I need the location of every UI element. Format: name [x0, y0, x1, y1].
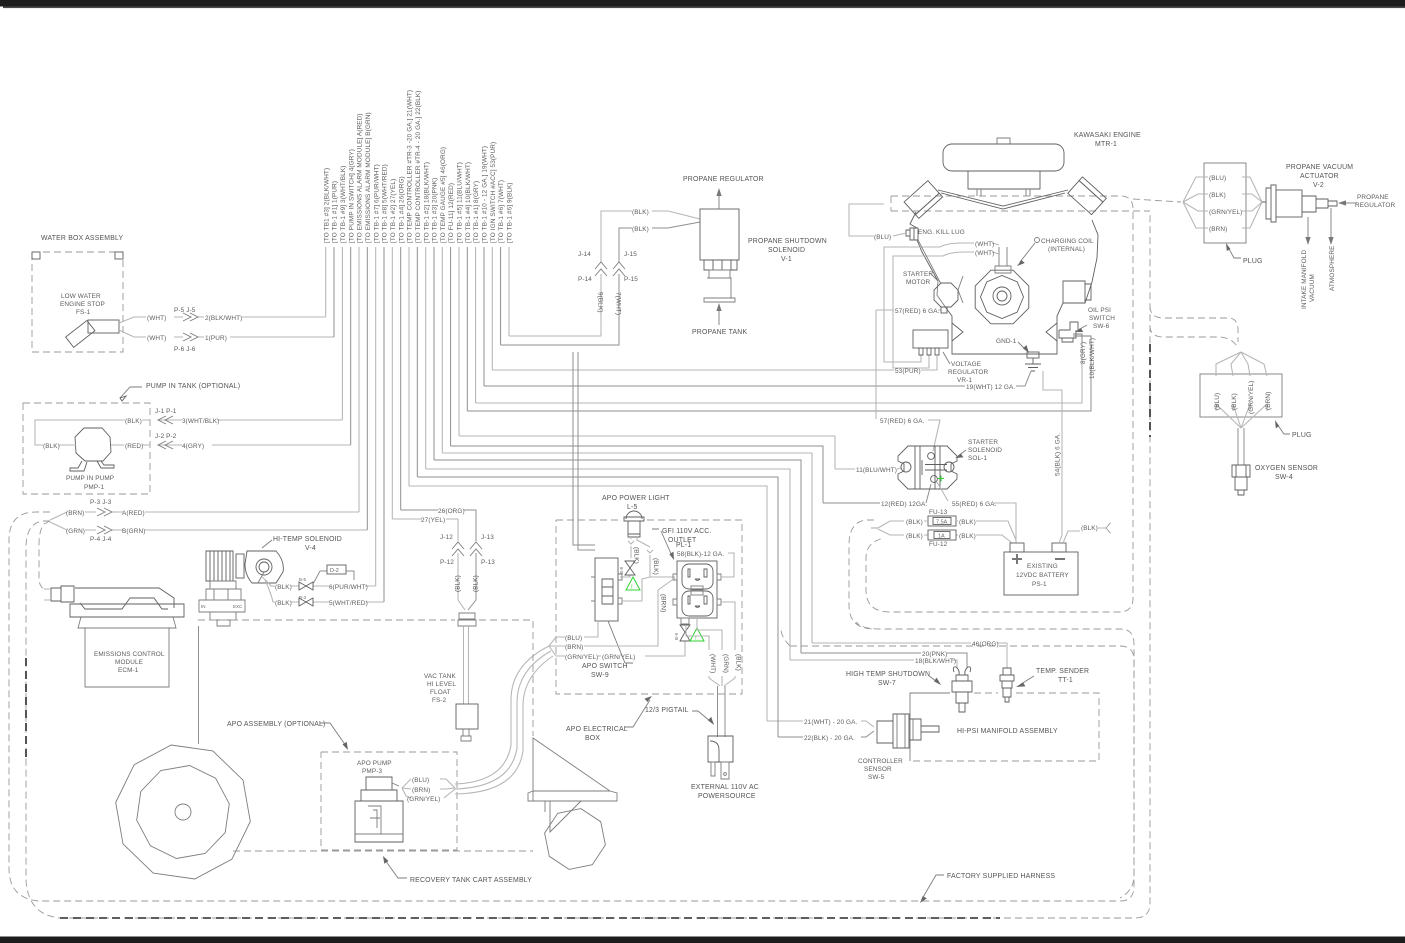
svg-text:(BLK): (BLK) [906, 519, 923, 526]
svg-text:(BLK): (BLK) [735, 654, 742, 671]
svg-text:[TO EMISSIONS ALARM MODULE] B(: [TO EMISSIONS ALARM MODULE] B(GRN) [365, 112, 372, 243]
svg-text:PMP-3: PMP-3 [362, 768, 382, 775]
svg-text:APO SWITCH: APO SWITCH [582, 663, 628, 670]
svg-text:EXTERNAL 110V AC: EXTERNAL 110V AC [691, 784, 759, 791]
factory harness dashed border left outer [9, 512, 1134, 901]
svg-text:LOW WATER: LOW WATER [61, 293, 101, 300]
wire 21(WHT) 20 GA to controller sensor [409, 486, 874, 727]
factory harness black dashed segment right [1149, 344, 1151, 437]
svg-text:P-5 J-5: P-5 J-5 [174, 307, 196, 314]
svg-text:SOLENOID: SOLENOID [768, 247, 805, 254]
svg-text:(WHT): (WHT) [147, 335, 166, 342]
svg-text:[TO FU-11] 12(RED): [TO FU-11] 12(RED) [448, 183, 455, 243]
wire 19(WHT) 12 GA to GND-1 [484, 371, 1031, 386]
wire 7(WHT) vertical drop [500, 247, 502, 345]
svg-text:GFI 110V ACC.: GFI 110V ACC. [662, 528, 712, 535]
wire 19(WHT) vertical drop [483, 247, 485, 386]
svg-text:(WHT): (WHT) [975, 250, 994, 257]
svg-text:(GRN/YEL): (GRN/YEL) [1209, 209, 1242, 216]
svg-text:12VDC BATTERY: 12VDC BATTERY [1016, 572, 1069, 579]
svg-text:(BLK): (BLK) [43, 443, 60, 450]
external 110V AC plug [708, 736, 733, 762]
svg-text:7(WHT): 7(WHT) [615, 292, 622, 315]
svg-text:(BRN): (BRN) [1265, 392, 1272, 410]
svg-text:[TO TB1 #3] 2(BLK/WHT): [TO TB1 #3] 2(BLK/WHT) [323, 168, 330, 243]
svg-text:V-2: V-2 [1313, 182, 1324, 189]
svg-text:B-9: B-9 [674, 633, 679, 641]
svg-text:27(YEL): 27(YEL) [421, 517, 445, 524]
wire 12(RED) vertical drop [450, 247, 452, 446]
emissions control module ECM-1 [51, 586, 74, 602]
starter solenoid SOL-1 [898, 446, 957, 489]
svg-text:STARTER: STARTER [903, 271, 933, 278]
svg-text:(BLK): (BLK) [275, 600, 292, 607]
wire ECM to harness [44, 589, 51, 600]
svg-text:53(PUR): 53(PUR) [895, 368, 921, 375]
pigtail wires (WHT)(GRN)(BLK) [686, 602, 735, 686]
wire (WHT) to P-6 J-6 [119, 330, 334, 337]
svg-text:6(PUR/WHT): 6(PUR/WHT) [329, 584, 368, 591]
wire 10(BLK/WHT) to oil psi switch [467, 342, 1091, 411]
dashed link to oxygen sensor plug lower [1150, 326, 1238, 348]
wire switch to outlet hot [622, 577, 650, 601]
wire 53(PUR) vertical drop [491, 247, 493, 370]
svg-text:(INTERNAL): (INTERNAL) [1048, 246, 1085, 253]
svg-text:VOLTAGE: VOLTAGE [951, 361, 981, 368]
svg-text:57(RED) 6 GA.: 57(RED) 6 GA. [895, 308, 940, 315]
svg-text:[TO TB-1 #3] 20(PNK): [TO TB-1 #3] 20(PNK) [432, 178, 439, 243]
svg-text:SENSOR: SENSOR [864, 766, 892, 773]
svg-text:FLOAT: FLOAT [430, 689, 451, 696]
svg-text:[TO TB-1 #10 - 12 GA.] 19(WHT): [TO TB-1 #10 - 12 GA.] 19(WHT) [482, 146, 489, 243]
svg-text:(BLK): (BLK) [1231, 393, 1238, 410]
wire 18(BLK/WHT) vertical drop [425, 247, 427, 469]
svg-text:P-12: P-12 [440, 559, 454, 566]
svg-text:[TO TB-1 #4] 10(BLK/WHT): [TO TB-1 #4] 10(BLK/WHT) [465, 162, 472, 243]
svg-text:IN: IN [201, 604, 206, 609]
svg-text:CHARGING COIL: CHARGING COIL [1041, 238, 1094, 245]
engine block outline [938, 190, 1068, 209]
svg-text:SW-7: SW-7 [878, 680, 896, 687]
wire (BLU) to switch [584, 621, 598, 637]
svg-text:ATMOSPHERE: ATMOSPHERE [1329, 246, 1336, 291]
svg-text:HI-TEMP SOLENOID: HI-TEMP SOLENOID [273, 536, 342, 543]
wire 27(YEL) vertical drop [391, 247, 393, 519]
voltage regulator VR-1 [913, 330, 948, 348]
warning triangle (green) near switch [626, 577, 640, 590]
svg-text:55(RED) 6 GA.: 55(RED) 6 GA. [952, 501, 997, 508]
wire 53(PUR) to voltage regulator [492, 356, 937, 370]
12/3 pigtail cable [718, 686, 726, 737]
dashed link to oxygen sensor plug upper [1150, 306, 1238, 342]
svg-text:(GRN/YEL): (GRN/YEL) [1248, 381, 1255, 414]
wire 26(ORG) vertical drop [400, 247, 402, 510]
svg-text:P-4 J-4: P-4 J-4 [90, 536, 112, 543]
wire 46(ORG) vertical drop [441, 247, 443, 453]
svg-text:RECOVERY TANK CART ASSEMBLY: RECOVERY TANK CART ASSEMBLY [410, 877, 532, 884]
svg-text:12(RED) 12GA.: 12(RED) 12GA. [881, 501, 927, 508]
svg-text:20(PNK): 20(PNK) [922, 651, 947, 658]
svg-text:(BRN): (BRN) [1209, 226, 1227, 233]
svg-text:EXC: EXC [233, 604, 243, 609]
engine PTO shaft [1063, 281, 1091, 303]
svg-text:APO POWER LIGHT: APO POWER LIGHT [602, 495, 670, 502]
hi-psi manifold assembly enclosure [910, 693, 950, 761]
svg-text:(BLK): (BLK) [959, 519, 976, 526]
wire 27(YEL) to J-12 [392, 519, 465, 610]
wire 20(PNK) vertical drop [433, 247, 435, 460]
wire 8(GRY) to oil psi switch [476, 342, 1082, 403]
wire (BLK) diode B-5 to 6(PUR/WHT) [262, 577, 376, 586]
svg-text:(GRN/YEL): (GRN/YEL) [407, 796, 440, 803]
svg-text:SW-5: SW-5 [868, 774, 885, 781]
propane regulator arrow (top) [718, 196, 720, 209]
svg-text:(GRN/YEL): (GRN/YEL) [602, 654, 635, 661]
svg-text:FS-2: FS-2 [432, 697, 447, 704]
svg-text:5(WHT/RED): 5(WHT/RED) [329, 600, 368, 607]
plug for oxygen sensor [1200, 374, 1282, 417]
svg-text:PROPANE SHUTDOWN: PROPANE SHUTDOWN [748, 238, 827, 245]
wire (RED) to 4(GRY) [111, 444, 351, 446]
feeder wires into APO box top [573, 352, 595, 550]
recovery tank wheel (decagon) [116, 745, 251, 879]
svg-text:P-3 J-3: P-3 J-3 [90, 499, 112, 506]
wire 12(RED) 12GA to starter solenoid [451, 446, 931, 503]
propane tank arrow (bottom) [718, 309, 720, 325]
svg-text:D-2: D-2 [330, 568, 339, 574]
svg-text:12/3 PIGTAIL: 12/3 PIGTAIL [645, 707, 689, 714]
svg-text:(BLK): (BLK) [1209, 192, 1226, 199]
svg-text:3(WHT/BLK): 3(WHT/BLK) [182, 418, 219, 425]
fuse FU-12 1A [878, 529, 1012, 543]
svg-text:8(GRY): 8(GRY) [1080, 342, 1087, 364]
svg-text:1(PUR): 1(PUR) [205, 335, 227, 342]
svg-text:BOX: BOX [585, 735, 600, 742]
svg-text:(BLK): (BLK) [275, 584, 292, 591]
svg-text:APO ASSEMBLY (OPTIONAL): APO ASSEMBLY (OPTIONAL) [227, 721, 326, 728]
wire A(RED) vertical drop [358, 247, 360, 512]
svg-text:(BLK): (BLK) [455, 575, 462, 592]
wire 2(BLK/WHT) vertical drop [325, 247, 327, 317]
svg-text:PL-1: PL-1 [676, 542, 691, 549]
svg-text:(GRN): (GRN) [66, 528, 85, 535]
svg-text:V-1: V-1 [781, 256, 792, 263]
svg-text:KAWASAKI ENGINE: KAWASAKI ENGINE [1074, 132, 1141, 139]
svg-text:J-15: J-15 [624, 251, 637, 258]
svg-text:21(WHT) - 20 GA.: 21(WHT) - 20 GA. [804, 719, 858, 726]
svg-text:[TO TEMP CONTROLLER #TR-3 -20: [TO TEMP CONTROLLER #TR-3 -20 GA.] 21(WH… [407, 90, 414, 243]
svg-text:VR-1: VR-1 [957, 377, 972, 384]
svg-text:EMISSIONS CONTROL: EMISSIONS CONTROL [94, 651, 165, 658]
svg-text:HI-PSI MANIFOLD ASSEMBLY: HI-PSI MANIFOLD ASSEMBLY [957, 728, 1058, 735]
wire 46(ORG) to temp sender [442, 453, 1007, 668]
svg-text:MTR-1: MTR-1 [1095, 141, 1117, 148]
svg-text:P-15: P-15 [624, 276, 638, 283]
svg-text:VAC TANK: VAC TANK [424, 673, 456, 680]
bottom border bar [0, 937, 1405, 943]
svg-text:[TO TB-1 #2] 18(BLK/WHT): [TO TB-1 #2] 18(BLK/WHT) [423, 162, 430, 243]
svg-text:OXYGEN SENSOR: OXYGEN SENSOR [1255, 465, 1318, 472]
wire 1(PUR) vertical drop [333, 247, 335, 337]
svg-text:22(BLK) - 20 GA.: 22(BLK) - 20 GA. [804, 735, 855, 742]
wire 20(PNK) to high temp shutdown [434, 460, 967, 668]
svg-text:REGULATOR: REGULATOR [948, 369, 989, 376]
wire 22(BLK) 20 GA to controller sensor [417, 477, 874, 737]
engine left muffler [904, 181, 943, 219]
recovery tank cart assembly label [233, 850, 533, 852]
wire 8(GRY) vertical drop [475, 247, 477, 403]
oxygen sensor SW-4 [1238, 428, 1244, 465]
svg-text:REGULATOR: REGULATOR [1355, 202, 1396, 209]
wire 22(BLK) vertical drop [416, 247, 418, 477]
svg-text:[TO TB-1 #9] 3(WHT/BLK): [TO TB-1 #9] 3(WHT/BLK) [340, 166, 347, 243]
svg-text:PROPANE REGULATOR: PROPANE REGULATOR [683, 176, 764, 183]
svg-text:PLUG: PLUG [1243, 258, 1263, 265]
svg-text:19(WHT) 12 GA.: 19(WHT) 12 GA. [966, 384, 1015, 391]
svg-text:B-5: B-5 [299, 577, 307, 582]
svg-text:[TO TB-1 #8] 5(WHT/RED): [TO TB-1 #8] 5(WHT/RED) [382, 164, 389, 243]
vac tank hi level float FS-2 [458, 613, 476, 626]
svg-text:L-5: L-5 [627, 504, 638, 511]
svg-text:FS-1: FS-1 [76, 309, 91, 316]
svg-text:FU-12: FU-12 [929, 541, 948, 548]
svg-text:7.5A: 7.5A [936, 520, 948, 526]
svg-text:(BLK): (BLK) [632, 209, 649, 216]
svg-text:P-6 J-6: P-6 J-6 [174, 346, 196, 353]
svg-text:PMP-1: PMP-1 [84, 484, 104, 491]
svg-text:ENGINE STOP: ENGINE STOP [60, 301, 105, 308]
plug for propane vacuum actuator [1204, 163, 1246, 243]
engine right muffler [1068, 177, 1107, 215]
dashed boundary through float [198, 620, 533, 736]
wire (BLU)(BRN)(GRN/YEL) pump pigtail [402, 779, 455, 798]
svg-text:(BLK): (BLK) [906, 533, 923, 540]
wire 5(WHT/RED) vertical drop [383, 247, 385, 602]
svg-text:ENG. KILL LUG: ENG. KILL LUG [918, 229, 965, 236]
wire (WHT) charging leads [940, 243, 999, 256]
svg-text:26(ORG): 26(ORG) [438, 508, 465, 515]
svg-text:POWERSOURCE: POWERSOURCE [698, 793, 756, 800]
svg-text:MOTOR: MOTOR [906, 279, 931, 286]
wire 3(WHT/BLK) vertical drop [341, 247, 343, 420]
svg-text:(BLK): (BLK) [473, 575, 480, 592]
outlet body [677, 561, 717, 618]
svg-text:GND-1: GND-1 [996, 338, 1017, 345]
svg-text:(BLK): (BLK) [1081, 525, 1098, 532]
pump in pump PMP-1 [75, 428, 111, 461]
wire (GRN/YEL) ground to diode B-9 [597, 641, 685, 656]
wire (BLU) to kill lug [849, 204, 906, 236]
svg-text:(BRN): (BRN) [412, 787, 430, 794]
svg-text:SW-6: SW-6 [1093, 323, 1110, 330]
APO switch SW-9 [595, 558, 618, 621]
svg-text:(BLK): (BLK) [632, 226, 649, 233]
svg-text:SW-9: SW-9 [591, 672, 609, 679]
svg-text:TT-1: TT-1 [1058, 677, 1073, 684]
svg-text:4(GRY): 4(GRY) [182, 443, 204, 450]
svg-text:B-3: B-3 [299, 595, 307, 600]
svg-text:58(BLK)-12 GA.: 58(BLK)-12 GA. [677, 551, 724, 558]
svg-text:J-14: J-14 [578, 251, 591, 258]
svg-text:(WHT): (WHT) [709, 654, 716, 673]
recovery cart [528, 738, 617, 801]
wire 9(BLK) vertical drop [508, 247, 510, 336]
wire 18(BLK/WHT) to high temp shutdown [426, 469, 957, 668]
controller sensor SW-5 [877, 714, 939, 748]
svg-text:(BRN): (BRN) [565, 644, 583, 651]
eng kill lug [906, 228, 918, 240]
wire (BLK) diode B-3 to 5(WHT/RED) [265, 580, 384, 602]
svg-text:CONTROLLER: CONTROLLER [858, 758, 903, 765]
svg-text:(RED): (RED) [125, 443, 143, 450]
svg-text:HI LEVEL: HI LEVEL [427, 681, 456, 688]
svg-text:[TO TB-1 #6] 7(WHT): [TO TB-1 #6] 7(WHT) [498, 180, 505, 243]
svg-text:46(ORG): 46(ORG) [972, 641, 999, 648]
wire (BRN) outlet neutral [584, 578, 675, 646]
svg-text:(BLK): (BLK) [125, 418, 142, 425]
engine flywheel [975, 270, 1029, 324]
wire (BLK) light to diode B-8 [620, 537, 634, 577]
wire harness drop to ECM [39, 521, 50, 589]
wire (WHT) to P-5 J-5 [119, 317, 326, 323]
svg-text:9(BLK): 9(BLK) [597, 292, 604, 313]
svg-text:11(BLU/WHT): 11(BLU/WHT) [856, 467, 897, 474]
atmosphere arrow [1330, 208, 1332, 238]
wire 26(ORG) to J-13 [401, 510, 476, 610]
svg-text:(WHT): (WHT) [975, 241, 994, 248]
svg-text:(GRN/YEL): (GRN/YEL) [565, 654, 598, 661]
svg-text:J-2 P-2: J-2 P-2 [155, 433, 177, 440]
svg-text:ECM-1: ECM-1 [118, 667, 139, 674]
svg-text:A(RED): A(RED) [122, 510, 145, 517]
svg-text:OIL PSI: OIL PSI [1088, 307, 1111, 314]
hi-temp solenoid mount stack [206, 581, 241, 600]
svg-text:B-8: B-8 [619, 567, 624, 575]
svg-text:PROPANE TANK: PROPANE TANK [692, 329, 747, 336]
svg-text:PUMP IN TANK (OPTIONAL): PUMP IN TANK (OPTIONAL) [146, 383, 240, 390]
svg-text:WATER BOX ASSEMBLY: WATER BOX ASSEMBLY [41, 235, 124, 242]
svg-text:2(BLK/WHT): 2(BLK/WHT) [205, 315, 242, 322]
svg-text:SW-4: SW-4 [1275, 474, 1293, 481]
svg-text:18(BLK/WHT): 18(BLK/WHT) [915, 658, 956, 665]
top title bar [0, 0, 1405, 7]
svg-text:57(RED) 6 GA.: 57(RED) 6 GA. [880, 418, 925, 425]
APO electrical box dashed enclosure [556, 520, 742, 694]
svg-text:FACTORY SUPPLIED HARNESS: FACTORY SUPPLIED HARNESS [947, 873, 1055, 880]
svg-text:(BRN): (BRN) [66, 510, 84, 517]
svg-text:(BLU): (BLU) [874, 234, 891, 241]
green plus terminal mark [938, 476, 944, 482]
svg-text:P-13: P-13 [481, 559, 495, 566]
svg-text:PS-1: PS-1 [1032, 581, 1047, 588]
svg-text:B(GRN): B(GRN) [122, 528, 145, 535]
warning triangle (green) near outlet [690, 628, 704, 641]
svg-text:PLUG: PLUG [1292, 432, 1312, 439]
intake manifold vacuum arrow [1307, 217, 1309, 238]
svg-text:10(BLK/WHT): 10(BLK/WHT) [1089, 338, 1096, 379]
svg-text:SWITCH: SWITCH [1089, 315, 1115, 322]
svg-text:PROPANE: PROPANE [1357, 194, 1389, 201]
wire 11(BLU/WHT) vertical drop [458, 247, 460, 436]
svg-text:FU-13: FU-13 [929, 509, 948, 516]
wire (BLK) pump loop to 3(WHT/BLK) [35, 420, 342, 445]
svg-text:APO PUMP: APO PUMP [357, 760, 392, 767]
battery PS-1 [1004, 552, 1078, 595]
diode block D-2 [313, 571, 354, 584]
svg-text:EXISTING: EXISTING [1027, 563, 1058, 570]
svg-text:MODULE: MODULE [115, 659, 143, 666]
propane shutdown solenoid V-1 [700, 209, 739, 260]
svg-text:HIGH TEMP SHUTDOWN: HIGH TEMP SHUTDOWN [846, 671, 930, 678]
vac line from solenoid to tank [198, 626, 200, 744]
charging coil internal [1035, 238, 1040, 243]
svg-text:(BLK): (BLK) [959, 533, 976, 540]
wire 55(RED) 6 GA to battery [937, 482, 1016, 543]
svg-text:[TO TEMP CONTROLLER #TR-4 - 20: [TO TEMP CONTROLLER #TR-4 - 20 GA.] 22(B… [415, 90, 422, 243]
svg-text:(BLK): (BLK) [652, 558, 659, 575]
svg-text:SOL-1: SOL-1 [968, 455, 987, 462]
wire 21(WHT) vertical drop [408, 247, 410, 486]
svg-text:J-1 P-1: J-1 P-1 [155, 408, 177, 415]
wire 57(RED) 6 GA engine side [876, 310, 941, 451]
svg-text:[TO TB-1 #6] 9(BLK): [TO TB-1 #6] 9(BLK) [507, 182, 514, 243]
svg-text:J-12: J-12 [440, 534, 453, 541]
svg-text:(WHT): (WHT) [147, 315, 166, 322]
svg-text:[TO PUMP IN SWITCH] 4(GRY): [TO PUMP IN SWITCH] 4(GRY) [348, 149, 355, 243]
svg-text:SOLENOID: SOLENOID [968, 447, 1002, 454]
svg-text:STARTER: STARTER [968, 439, 998, 446]
factory harness black dashed segment left [25, 658, 27, 758]
connector P-4 J-4 wire B(GRN) [50, 522, 367, 530]
water box assembly dashed enclosure [32, 252, 123, 352]
svg-text:APO ELECTRICAL: APO ELECTRICAL [566, 726, 628, 733]
factory harness dashed border left inner [26, 213, 1150, 918]
svg-text:(BLU): (BLU) [1214, 393, 1221, 410]
wire 9(BLK) via J-14 to propane solenoid [509, 211, 700, 336]
svg-text:V-4: V-4 [305, 545, 316, 552]
svg-text:[TO TB-1 #2] 27(YEL): [TO TB-1 #2] 27(YEL) [390, 179, 397, 243]
svg-text:PROPANE VACUUM: PROPANE VACUUM [1286, 164, 1353, 171]
svg-text:(BRN): (BRN) [660, 594, 667, 612]
svg-text:(BLU): (BLU) [565, 635, 582, 642]
wire 54(BLK) 6 GA battery to ground [1043, 371, 1062, 543]
battery loop dashed outer [849, 520, 874, 629]
wire B(GRN) vertical drop [366, 247, 368, 530]
svg-text:[TO TB-1 #1] 8(GRY): [TO TB-1 #1] 8(GRY) [473, 181, 480, 243]
dashed link to propane vacuum actuator plug [1133, 199, 1181, 202]
svg-text:[TO TB-1 #1] 1(PUR): [TO TB-1 #1] 1(PUR) [332, 181, 339, 243]
svg-text:54(BLK) 6 GA.: 54(BLK) 6 GA. [1055, 433, 1062, 476]
wire (BLK) battery negative stub [1063, 528, 1106, 543]
wire 11(BLU/WHT) to starter solenoid [459, 436, 901, 469]
svg-text:(BLU): (BLU) [412, 777, 429, 784]
wire 10(BLK/WHT) vertical drop [466, 247, 468, 411]
svg-text:(BLU): (BLU) [1209, 175, 1226, 182]
svg-text:P-14: P-14 [578, 276, 592, 283]
svg-text:[TO TB-1 #7] 6(PUR/WHT): [TO TB-1 #7] 6(PUR/WHT) [373, 164, 380, 243]
wire 6(PUR/WHT) vertical drop [375, 247, 377, 586]
svg-text:[TO IGN SWITCH #ACC] 53(PUR): [TO IGN SWITCH #ACC] 53(PUR) [490, 142, 497, 243]
hi-psi area dashed border top [781, 629, 1134, 898]
svg-text:J-13: J-13 [481, 534, 494, 541]
wire 4(GRY) vertical drop [350, 247, 352, 445]
svg-text:TEMP. SENDER: TEMP. SENDER [1036, 668, 1089, 675]
factory harness bottom black dashed [60, 917, 1000, 919]
engine dashed boundary [866, 196, 1133, 612]
arrow to propane regulator [1344, 202, 1357, 204]
hi-temp solenoid V-4 body [245, 551, 283, 583]
svg-text:ACTUATOR: ACTUATOR [1300, 173, 1339, 180]
